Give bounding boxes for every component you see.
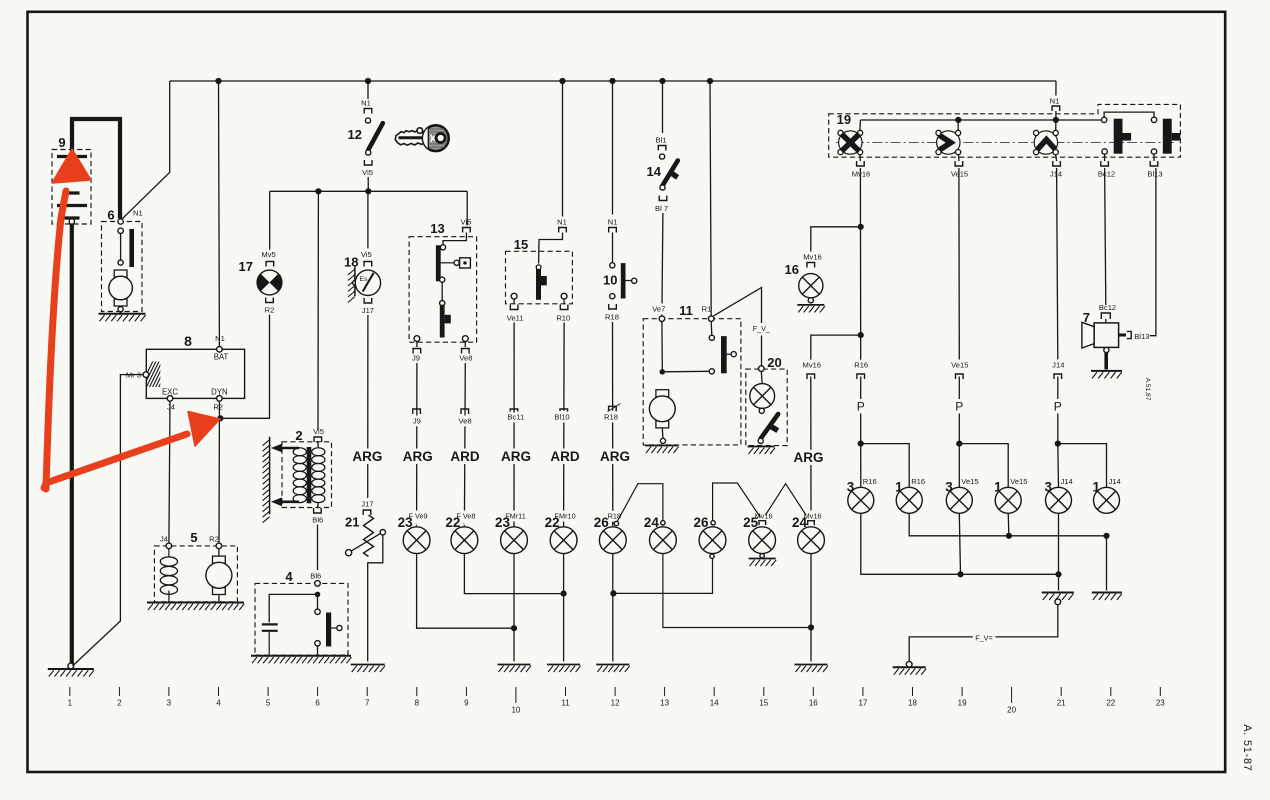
wiper box 11 <box>643 319 741 445</box>
rotary switch 19 position 1 (X) <box>838 130 863 154</box>
svg-text:Ve7: Ve7 <box>652 305 665 314</box>
connector J14 mid col <box>1054 374 1062 379</box>
junction bus/col12 N1 to 10 <box>609 78 615 84</box>
wire column 21 upper <box>1057 168 1058 362</box>
svg-text:R2: R2 <box>265 306 275 315</box>
wire lamp24-13 bottom to col16 rail <box>663 554 811 628</box>
lamp 22 (F Ve8) col x464 <box>451 527 478 554</box>
switch box 15 <box>506 251 573 303</box>
pilot square 13 <box>460 258 471 268</box>
starter 6 dashed box <box>102 222 143 312</box>
switch 13 lower bar <box>440 305 451 338</box>
wire bus to 15 <box>562 81 564 226</box>
svg-text:16: 16 <box>785 262 799 277</box>
svg-text:J9: J9 <box>413 417 421 426</box>
breaker cam lever 4 <box>326 613 342 647</box>
connector R18 mid <box>609 406 617 411</box>
wire column 9 <box>463 363 466 527</box>
svg-text:R16: R16 <box>854 361 868 370</box>
connector R16 mid col <box>857 374 865 379</box>
junction col17/col16 branch2 <box>858 332 864 338</box>
wire Vi5 bus to 13 <box>466 191 468 225</box>
lamp 1 R16 <box>896 487 922 513</box>
junction rail1/col20 <box>1006 533 1012 539</box>
connector N1 above 12 <box>364 109 372 114</box>
svg-text:11: 11 <box>561 699 570 708</box>
stub Mv16 out <box>859 155 862 161</box>
lamp24 col13 top circle <box>661 521 665 525</box>
connector Ve8 mid <box>461 409 469 414</box>
connector Mv16 above 16 <box>807 263 815 268</box>
svg-text:J4: J4 <box>167 403 175 412</box>
svg-text:14: 14 <box>647 164 662 179</box>
connector J17 under 18 <box>364 298 372 303</box>
svg-text:5: 5 <box>190 530 197 545</box>
lamp box 20 <box>746 369 787 446</box>
svg-text:R2: R2 <box>209 535 219 544</box>
svg-text:N1: N1 <box>1050 97 1060 106</box>
wire bus to gauge 18 <box>367 191 369 258</box>
wire lamp 1Ve15 down <box>1007 514 1010 536</box>
switch box 13 <box>409 237 477 343</box>
rheostat 21 resistor <box>364 515 374 557</box>
wire top supply bus N1 <box>170 80 1056 82</box>
svg-text:J14: J14 <box>1052 361 1064 370</box>
switch 11 side circle <box>731 352 736 357</box>
capacitor in 4 <box>262 624 278 655</box>
wire 20 top <box>760 372 763 384</box>
lamp 24 (Mv16) col x811 <box>798 527 825 554</box>
svg-text:Ve8: Ve8 <box>458 417 471 426</box>
switch 10 upper contact <box>610 263 615 268</box>
svg-text:17: 17 <box>858 699 867 708</box>
wire lamp 3Ve15 down <box>959 514 960 575</box>
motor of 5 <box>206 556 232 594</box>
coil 2 mount arrow bottom <box>271 497 299 506</box>
lamp in 20 <box>750 384 775 409</box>
wiper top circle <box>380 530 385 535</box>
wiper end circle <box>346 550 352 556</box>
terminal BAT <box>217 347 223 353</box>
svg-text:Bl 7: Bl 7 <box>655 204 668 213</box>
svg-text:4: 4 <box>216 699 221 708</box>
svg-text:ARD: ARD <box>550 449 579 464</box>
connector N1 at 19 <box>1052 106 1060 111</box>
wire R2 to motor 5 <box>218 549 220 558</box>
wire lamp23-8 bottom to col10 <box>417 554 514 629</box>
svg-text:8: 8 <box>415 699 420 708</box>
motor of starter 6 <box>109 270 133 306</box>
ground under lamp 25 <box>749 559 777 567</box>
connector Mv5 <box>266 262 274 267</box>
ground right earth A <box>1042 593 1074 601</box>
ground column 16 <box>795 665 829 673</box>
wall mount of gauge 18 <box>348 266 355 303</box>
wire Bc12 down to horn <box>1105 168 1106 305</box>
ground under box 5 <box>147 603 244 611</box>
svg-text:Bl1: Bl1 <box>656 136 667 145</box>
svg-text:R18: R18 <box>605 313 619 322</box>
terminal R10 <box>561 293 567 299</box>
battery negative terminal <box>69 219 74 224</box>
wire J17 column 7 <box>367 315 369 508</box>
fuel gauge 18 <box>355 270 380 295</box>
svg-text:ARG: ARG <box>403 449 433 464</box>
connector Vi5 above 13 <box>463 228 471 233</box>
svg-text:Bl13: Bl13 <box>1134 332 1149 341</box>
connector J9 mid <box>413 409 421 414</box>
gauge 18 left terminal <box>353 280 358 285</box>
ignition key icon <box>395 125 448 151</box>
svg-text:A.51,87: A.51,87 <box>1144 378 1151 401</box>
starter 6 contact bar <box>129 229 134 267</box>
stub Ve8 <box>464 342 466 348</box>
stub c2 to bus <box>957 120 959 130</box>
wire col11 to ground <box>563 554 565 662</box>
svg-text:19: 19 <box>837 112 851 127</box>
wire wiper to ground column <box>368 535 383 662</box>
terminal Bl6 of 4 <box>315 581 321 587</box>
connector Vi5 under 12 <box>364 160 372 165</box>
lamp 22 (FMr10) col x563 <box>550 527 577 554</box>
wire rail lamps-3 bottoms <box>861 514 1059 575</box>
wire N1 from top bus <box>1055 81 1057 97</box>
contact 11 upper <box>709 335 714 340</box>
junction Vi5 bus / coil 2 column <box>315 188 321 194</box>
connector Vi5 above 18 <box>364 262 372 267</box>
wire branch Mv16 col16 <box>811 335 861 374</box>
wire branch to lamp 16 <box>811 227 861 261</box>
svg-text:9: 9 <box>58 135 65 150</box>
ground in box 20 <box>748 447 776 455</box>
ground starter 6 <box>99 314 146 322</box>
wire branch to lamp 1R16 <box>861 444 910 488</box>
wire 13 lamp branch <box>441 262 454 264</box>
connector Bc12 output <box>1101 161 1109 166</box>
rotary switch 19 position 3 (chevron up) <box>1034 130 1059 154</box>
contact 13 branch <box>454 260 459 265</box>
wire column 8 <box>416 363 418 527</box>
horn bottom terminal <box>1104 347 1109 352</box>
wire bus inside 19 <box>860 119 1104 121</box>
svg-text:Mv5: Mv5 <box>261 250 275 259</box>
junction col21 branch <box>1055 441 1061 447</box>
wire thick battery negative cable <box>70 224 74 664</box>
svg-text:Vi5: Vi5 <box>313 427 324 436</box>
pushbutton 1 lower contact <box>1102 149 1107 154</box>
switch 13 upper bar <box>436 245 441 281</box>
terminal DYN <box>217 396 223 402</box>
terminal R1 <box>708 316 714 322</box>
stop switch 14 lever <box>663 161 678 186</box>
junction col19 branch <box>956 441 962 447</box>
wire N1 to contact 10 <box>612 233 614 263</box>
junction rail3/col19 <box>957 571 963 577</box>
junction 19 bus / J14-N1 <box>1053 117 1059 123</box>
wire col J14 to P <box>1057 377 1059 442</box>
ground under box 4 <box>251 656 351 664</box>
breaker contact upper <box>315 609 320 614</box>
horn 7 body <box>1082 322 1119 348</box>
ground column 7 <box>351 665 385 673</box>
bottom reference scale <box>68 687 1166 715</box>
lamp 3 J14 <box>1046 487 1072 513</box>
connector Mv16 on lamp 25 <box>759 521 766 525</box>
wire 13 between bars <box>441 282 443 300</box>
splice tick on R18 connector <box>605 404 621 414</box>
stub Ve11 <box>513 299 515 304</box>
svg-text:7: 7 <box>365 699 370 708</box>
svg-text:Mr 3: Mr 3 <box>126 371 141 380</box>
svg-text:J14: J14 <box>1061 477 1073 486</box>
svg-text:19: 19 <box>958 699 967 708</box>
wire col12 to ground <box>612 554 614 662</box>
switch 10 lower contact <box>610 294 615 299</box>
wire bus to lamp 17 <box>269 191 271 258</box>
connector R2 under 17 <box>266 298 274 303</box>
connector N1 above 15 <box>559 228 567 233</box>
svg-text:6: 6 <box>315 699 320 708</box>
svg-text:N1: N1 <box>608 218 618 227</box>
terminal 20 top <box>759 366 765 372</box>
connector Bl10 mid <box>560 409 568 414</box>
wire bus to 14 <box>662 81 664 133</box>
pushbutton 1 upper contact <box>1101 117 1106 122</box>
connector Ve15 mid col <box>956 374 964 379</box>
svg-text:J17: J17 <box>361 500 373 509</box>
switch 20 lever <box>761 414 779 439</box>
svg-text:N1: N1 <box>133 209 143 218</box>
wire col17 to lamp <box>860 444 862 488</box>
svg-text:6: 6 <box>107 208 114 223</box>
connector Vi5 above 2 <box>314 437 322 442</box>
ground in box 11 <box>645 446 679 454</box>
junction in 11 <box>660 369 666 375</box>
ground column 11 <box>547 665 581 673</box>
svg-text:10: 10 <box>603 273 617 288</box>
lamp 25 (Mv16) col x762 <box>749 527 776 554</box>
lamp 16 <box>799 274 823 298</box>
svg-text:9: 9 <box>464 699 469 708</box>
wire N1 staple to bus19 <box>1055 111 1057 117</box>
switch 10 bar <box>621 263 626 298</box>
wire jog lamp26-14 to lamp25 <box>713 483 761 521</box>
wire col19 to lamp <box>958 444 960 488</box>
pushbutton 2 lower contact <box>1151 149 1156 154</box>
svg-text:1: 1 <box>68 699 73 708</box>
terminal motor 11 bottom <box>660 438 665 443</box>
coil 2 core bar <box>307 447 312 503</box>
stub J14 out <box>1055 155 1058 161</box>
wire bus left end down to node <box>122 81 170 219</box>
coil 2 primary winding <box>293 448 306 503</box>
wire Vi5 bus to coil 2 <box>317 191 319 430</box>
svg-text:5: 5 <box>266 699 271 708</box>
rheostat 21 wiper arm <box>351 534 380 552</box>
wire Mr3 earth lead <box>73 375 144 666</box>
lamp26 col14 bottom circle <box>710 554 714 558</box>
terminal J9 of 13 <box>414 336 420 342</box>
regulator 8 hatch area <box>140 361 178 388</box>
wire starter internal <box>120 234 122 261</box>
mechanical axis dash-dot line <box>836 141 1176 143</box>
svg-text:ARG: ARG <box>600 449 630 464</box>
wire Bl7 to 11 Ve7 <box>662 213 663 316</box>
horn mount post <box>1104 353 1108 370</box>
svg-text:12: 12 <box>611 699 620 708</box>
battery 9 dashed box <box>52 150 91 225</box>
ground column 10 <box>498 665 532 673</box>
terminal Ve8 of 13 <box>462 336 468 342</box>
lamp 26 (R18) col x612 <box>599 527 626 554</box>
stub Ve15 out <box>958 155 960 161</box>
wire lamp 3J14 down <box>1058 514 1060 575</box>
starter motor bottom terminal <box>118 307 123 312</box>
switch 10 side circle <box>632 278 637 283</box>
warning lamp 17 <box>257 270 282 295</box>
wire col21 to lamp <box>1057 444 1060 488</box>
svg-text:15: 15 <box>514 237 528 252</box>
pushbutton 2 bar <box>1163 119 1180 154</box>
svg-text:Ve15: Ve15 <box>1010 477 1027 486</box>
svg-text:14: 14 <box>710 699 719 708</box>
wiper motor in 11 <box>649 390 675 428</box>
terminal Ve11 <box>511 293 517 299</box>
wire rail lamps-1 bottoms <box>909 514 1106 536</box>
wire column 10 <box>513 323 515 528</box>
wire R1 to lamp 20 <box>714 288 762 366</box>
svg-text:P: P <box>1054 400 1062 414</box>
connector Bc12 at horn <box>1101 313 1110 319</box>
stub R10 <box>563 299 565 304</box>
coil 2 secondary winding <box>312 448 325 503</box>
switch 10 side contact <box>626 280 632 282</box>
wire EXC to box5 J4 <box>169 401 170 543</box>
wire R1 feed from bus <box>710 81 711 316</box>
wire motor 5 to ground <box>218 595 220 602</box>
coil 2 mount arrow top <box>271 444 299 453</box>
contact 13 lower-top <box>440 301 445 306</box>
contact 13 upper-bottom <box>440 277 445 282</box>
junction col17/16 branch <box>858 224 864 230</box>
pushbutton 2 upper contact <box>1151 117 1156 122</box>
wire BAT to bus <box>218 81 221 347</box>
coil 2 dashed box <box>282 442 332 508</box>
wire col21 to earth <box>1058 574 1060 590</box>
wire col22 to earth <box>1106 536 1108 591</box>
switch 12 upper contact <box>365 118 370 123</box>
svg-text:R18: R18 <box>604 413 618 422</box>
svg-text:13: 13 <box>430 221 444 236</box>
svg-text:11: 11 <box>679 303 693 318</box>
junction col12 lower <box>610 590 616 596</box>
lamp 1 Ve15 <box>995 487 1021 513</box>
svg-text:17: 17 <box>239 259 253 274</box>
lamp 23 (FMr11) col x514 <box>501 527 528 554</box>
switch assembly 19 dashed box <box>829 104 1181 157</box>
svg-text:2: 2 <box>295 428 302 443</box>
switch 11 bar <box>721 336 727 373</box>
terminal N1 lower <box>118 228 123 233</box>
terminal EXC <box>167 396 173 402</box>
svg-text:F_V=: F_V= <box>975 634 992 643</box>
junction node R2/DYN <box>217 415 223 421</box>
svg-text:R16: R16 <box>911 477 925 486</box>
contact 13 upper-top <box>440 245 445 250</box>
connector Mv16 output <box>857 161 865 166</box>
connector R18 under 10 <box>609 304 617 309</box>
breaker 4 dashed box <box>255 583 348 655</box>
ground F_V earth <box>893 661 927 674</box>
svg-text:N1: N1 <box>361 99 371 108</box>
svg-text:10: 10 <box>511 706 520 715</box>
stub J9 <box>416 342 418 348</box>
svg-text:P: P <box>955 400 963 414</box>
wire lamp22-9 bottom to col11 <box>464 554 563 594</box>
red annotation arrow to R2 node <box>44 412 220 489</box>
svg-text:R1: R1 <box>702 305 712 314</box>
svg-text:16: 16 <box>809 699 818 708</box>
terminal 20 under lamp <box>759 408 764 413</box>
wire bus to switch 12 <box>367 81 369 99</box>
svg-text:20: 20 <box>1007 706 1016 715</box>
switch 14 upper contact <box>660 154 665 159</box>
ground column 12 <box>596 665 630 673</box>
svg-text:Mv16: Mv16 <box>803 361 822 370</box>
wire bus corner to c1 <box>859 120 862 131</box>
junction Vi5 bus / switch 12 <box>365 188 371 194</box>
wire DYN to box5 R2 <box>218 401 220 543</box>
svg-text:12: 12 <box>348 127 362 142</box>
wire column 17 upper <box>859 168 861 362</box>
ignition switch 12 lever <box>369 123 383 149</box>
wire motor 11 to ground <box>661 429 664 439</box>
svg-text:Bc12: Bc12 <box>1099 303 1116 312</box>
junction bus/col13 Bl1 to 14 <box>659 78 665 84</box>
switch 11 side contact <box>727 353 731 355</box>
breaker contact lower <box>315 641 320 646</box>
svg-text:J4: J4 <box>160 535 168 544</box>
wire jog lamp26-12 to lamp24-13 <box>618 484 663 521</box>
svg-text:Ve15: Ve15 <box>961 477 978 486</box>
svg-text:Bl10: Bl10 <box>554 413 569 422</box>
svg-text:ARD: ARD <box>450 449 479 464</box>
connector J14 output <box>1053 161 1061 166</box>
wire column 11 <box>563 323 566 528</box>
switch 15 bar <box>536 265 547 300</box>
svg-text:J17: J17 <box>362 306 374 315</box>
junction col11 lower <box>561 591 567 597</box>
stub Bc12 out <box>1104 154 1106 161</box>
wire rail col12 to lamp26-14 <box>613 559 712 594</box>
lamp 26 (turn) col x712 <box>699 527 726 554</box>
connector J17 above 21 <box>363 510 371 515</box>
wire 13 internal feed <box>443 233 466 245</box>
ground under horn <box>1091 371 1122 379</box>
svg-text:ARG: ARG <box>501 449 531 464</box>
connector Bl1 <box>658 146 666 151</box>
pushbutton 1 bar <box>1114 119 1131 154</box>
svg-text:N1: N1 <box>557 218 567 227</box>
lamp 1 J14 <box>1094 487 1120 513</box>
switch 20 pivot <box>758 438 763 443</box>
stub horn top <box>1105 319 1107 323</box>
lamp 23 (F Ve9) col x416 <box>403 527 430 554</box>
svg-text:BAT: BAT <box>214 353 229 362</box>
wire bus to 10 <box>612 81 614 215</box>
horn side terminal Bl13 <box>1119 331 1132 338</box>
wall mount of coil 2 <box>263 437 270 523</box>
